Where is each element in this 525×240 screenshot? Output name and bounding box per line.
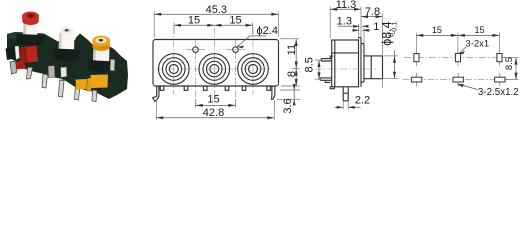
dim 3.6 right (280, 89, 300, 91)
red tab lower (15, 61, 26, 70)
svg-text:1: 1 (373, 21, 379, 33)
left shield leg hook (153, 86, 159, 101)
svg-text:1.3: 1.3 (337, 15, 352, 27)
vertical centerline jack 2 (213, 28, 215, 96)
leg yellow (87, 78, 93, 91)
svg-text:15: 15 (207, 94, 219, 106)
white jack cylinder (59, 30, 75, 54)
svg-text:-0.1: -0.1 (390, 21, 399, 34)
svg-text:8: 8 (286, 71, 298, 77)
svg-text:2.2: 2.2 (355, 95, 370, 107)
left corner foot (330, 87, 334, 89)
dim 15 bottom (196, 104, 236, 106)
shield tab middle white (61, 67, 67, 78)
bottom leg (343, 87, 348, 101)
tab gap (15, 46, 20, 60)
dim 15 15 top (174, 24, 253, 26)
right shield leg hook (272, 86, 275, 99)
svg-text:3-2x1: 3-2x1 (465, 39, 489, 50)
left tab 1 (321, 59, 332, 61)
bottom pads 3-2.5x1.2 (411, 77, 421, 82)
dim 1 (353, 29, 360, 31)
svg-text:8.5: 8.5 (504, 57, 515, 70)
red jack cylinder (23, 16, 38, 39)
housing top seam (332, 52, 359, 54)
red jack front square (19, 46, 38, 64)
svg-text:42.8: 42.8 (203, 107, 224, 119)
white shield piece right (110, 59, 115, 71)
vertical centerline small hole 1 (195, 40, 197, 107)
shield tab middle grey (48, 66, 55, 78)
leg diag 2 (59, 80, 65, 97)
small hole 2 (233, 47, 239, 53)
dim phi 2.4 leader (237, 36, 267, 47)
jack 1 circles (159, 54, 190, 85)
top pads 3-2x1 (414, 54, 419, 62)
svg-text:8.5: 8.5 (304, 57, 316, 72)
leg diag 1 (42, 74, 48, 88)
left black tab (6, 47, 16, 60)
svg-text:3.6: 3.6 (282, 98, 294, 113)
body block (7, 32, 128, 99)
dim 42.8 bottom (156, 117, 274, 119)
dim 11 / 8 right (295, 39, 297, 86)
dim 8.5 side (318, 60, 320, 79)
small hole centerline stubs (186, 49, 205, 51)
label 3-2.5x1.2 leader (457, 84, 477, 90)
svg-text:15: 15 (188, 14, 200, 26)
horizontal centerline through jacks (156, 68, 271, 70)
svg-text:11.3: 11.3 (336, 0, 357, 11)
mounting plate (360, 37, 362, 87)
yellow jack cap (92, 36, 110, 46)
left tab 2 step (325, 80, 330, 82)
jack 2 circles (199, 54, 230, 85)
svg-text:45.3: 45.3 (206, 4, 227, 16)
svg-text:15: 15 (474, 25, 484, 35)
leg diag 4 (92, 90, 97, 102)
svg-text:3-2.5x1.2: 3-2.5x1.2 (478, 87, 519, 98)
white jack cap (59, 26, 74, 35)
barrel step line (370, 56, 372, 79)
left foot (10, 61, 17, 74)
housing inner edge (334, 40, 336, 87)
housing (332, 40, 359, 87)
small hole 1 (193, 47, 199, 53)
vertical centerline jack 3 (252, 28, 254, 96)
collar (363, 44, 365, 82)
dim 11.3 (330, 8, 361, 10)
leg under red jack (27, 67, 33, 79)
svg-text:15: 15 (229, 14, 241, 26)
svg-text:ϕ2.4: ϕ2.4 (257, 25, 278, 37)
svg-text:15: 15 (432, 25, 442, 35)
row centerline top (404, 57, 514, 59)
dim 45.3 (154, 13, 278, 15)
yellow jack collar (88, 60, 114, 73)
vertical centerline jack 1 (173, 28, 175, 96)
left tab 2 (320, 78, 332, 80)
red jack cap (22, 15, 39, 22)
row centerline bottom (403, 79, 513, 81)
axis centerline (315, 68, 378, 70)
svg-text:7.8: 7.8 (365, 6, 380, 18)
yellow jack lower plastic (91, 75, 109, 89)
red jack collar (16, 34, 44, 46)
left tab 1 bump (330, 56, 333, 58)
yellow band lower (76, 79, 88, 90)
dim 2.2 (335, 106, 344, 108)
dim 7.8 (361, 16, 383, 18)
dim phi 8.4 0/-0.1 (384, 55, 398, 57)
svg-text:11: 11 (286, 44, 298, 55)
barrel (364, 56, 383, 79)
yellow jack cylinder (93, 44, 110, 66)
pad column ext/centerlines (415, 33, 417, 67)
dim 1.3 (338, 25, 360, 27)
white jack collar (53, 49, 80, 62)
body top face strip (7, 32, 44, 39)
dim 15 15 footprint (416, 34, 499, 36)
label 3-2x1 leader (459, 47, 466, 54)
yellow jack band (92, 41, 110, 49)
jack 3 circles (238, 54, 269, 85)
bottom pins (160, 86, 164, 90)
body outline (153, 40, 279, 87)
dim 8.5 footprint (502, 57, 518, 59)
vertical centerline small hole 2 (235, 40, 237, 107)
leg diag 3 (75, 86, 81, 101)
